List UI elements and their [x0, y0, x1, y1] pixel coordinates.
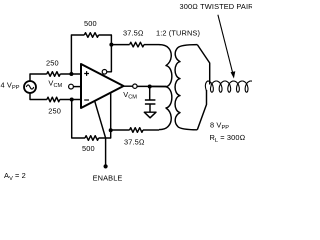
node junction bottom output	[109, 128, 113, 132]
node junction cap	[148, 85, 152, 89]
resistor 500 bottom	[85, 136, 99, 141]
wire to 37.5 top	[111, 44, 129, 46]
pin bubble VCM out	[133, 84, 137, 88]
svg-text:250: 250	[48, 107, 61, 116]
twisted pair coil	[205, 81, 252, 92]
svg-text:500: 500	[84, 19, 97, 28]
svg-text:AV = 2: AV = 2	[4, 171, 26, 182]
svg-text:37.5Ω: 37.5Ω	[124, 137, 145, 146]
wire to transformer bottom	[143, 129, 159, 131]
capacitor C1	[145, 87, 156, 113]
node junction top input	[69, 72, 73, 76]
enable terminal dot	[104, 164, 108, 168]
wire feedback bottom left	[72, 100, 85, 139]
svg-text:250: 250	[46, 58, 59, 67]
svg-text:1:2 (TURNS): 1:2 (TURNS)	[156, 28, 200, 37]
wire to transformer top	[144, 44, 159, 46]
svg-text:300Ω TWISTED PAIR: 300Ω TWISTED PAIR	[180, 2, 253, 11]
resistor 37.5 top	[130, 42, 144, 47]
wire bottom output	[110, 93, 112, 130]
wire output to bubble	[124, 85, 133, 87]
ground	[144, 112, 156, 118]
svg-text:RL = 300Ω: RL = 300Ω	[210, 133, 246, 144]
transformer center tap wire	[150, 86, 167, 88]
wire to +in	[60, 73, 81, 75]
svg-text:8 VPP: 8 VPP	[210, 121, 229, 132]
pin bubble VCM left	[69, 84, 74, 89]
svg-text:37.5Ω: 37.5Ω	[123, 29, 144, 38]
transformer T1 secondary winding	[175, 45, 197, 130]
wire feedback top left	[71, 35, 84, 74]
resistor 37.5 bottom	[130, 128, 143, 133]
transformer T1 primary winding	[159, 45, 172, 130]
wire source top	[30, 74, 47, 81]
node junction top output	[109, 43, 113, 47]
wire enable diagonal	[95, 101, 106, 164]
svg-text:ENABLE: ENABLE	[93, 174, 123, 183]
wire feedback bottom right	[99, 130, 111, 138]
minus input mark	[84, 99, 89, 101]
wire to -in	[60, 99, 81, 101]
sine wave in source	[26, 85, 34, 89]
source VS 4Vpp	[24, 81, 36, 93]
annotation arrow	[218, 15, 233, 75]
wire VCM stub	[73, 86, 81, 88]
wire secondary top lead	[197, 45, 209, 85]
wire output to tap	[137, 85, 166, 87]
svg-text:VCM: VCM	[123, 90, 137, 101]
resistor 500 top	[84, 33, 98, 38]
pin bubble out+	[102, 70, 107, 75]
resistor 250 top	[47, 72, 60, 77]
svg-text:4 VPP: 4 VPP	[1, 80, 20, 91]
wire feedback top right	[99, 35, 112, 72]
resistor 250 bottom	[47, 97, 60, 102]
arrowhead	[231, 71, 236, 78]
node junction bottom input	[70, 98, 74, 102]
svg-text:500: 500	[82, 144, 95, 153]
wire to 37.5 bottom	[111, 129, 130, 131]
svg-text:VCM: VCM	[48, 78, 62, 89]
wire source bottom	[30, 93, 47, 100]
wire secondary bottom lead	[197, 90, 206, 130]
op-amp U1	[81, 64, 124, 108]
plus input mark	[84, 71, 89, 76]
